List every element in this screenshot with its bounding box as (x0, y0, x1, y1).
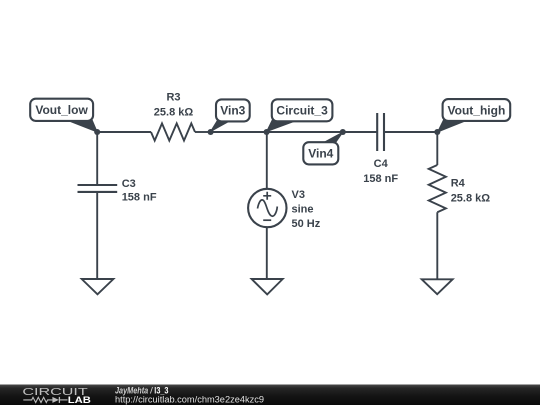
svg-text:LAB: LAB (68, 395, 92, 405)
credit url (115, 395, 264, 405)
value 158 nF (C4) (363, 173, 398, 185)
svg-text:Circuit_3: Circuit_3 (276, 104, 328, 118)
ground (left) (82, 279, 114, 294)
net flag Vout_high (438, 99, 511, 132)
label R3 (166, 92, 180, 104)
ground (right) (422, 279, 453, 294)
svg-text:V3: V3 (292, 189, 305, 201)
net flag Vin3 (211, 99, 250, 131)
value 158 nF (C3) (122, 192, 157, 204)
capacitor C4 (377, 113, 384, 151)
logo wire with resistor and diode (23, 397, 67, 403)
label R4 (451, 177, 466, 189)
logo LAB text (68, 395, 92, 405)
svg-text:R4: R4 (451, 177, 466, 189)
ground (middle) (252, 279, 283, 294)
wire: node D to C4 left plate (343, 131, 377, 133)
value 25.8 kΩ (R4) (451, 193, 491, 205)
footer bar (0, 385, 540, 405)
net flag Vin4 (303, 132, 343, 164)
node D (Vin4 junction) (340, 129, 346, 135)
svg-text:25.8 kΩ: 25.8 kΩ (451, 193, 491, 205)
node E (Vout_high junction) (434, 129, 440, 135)
voltage source V3 (248, 189, 286, 227)
svg-text:Vout_high: Vout_high (448, 103, 506, 117)
value sine (V3) (292, 204, 314, 216)
wire: node C down to V3 (266, 132, 268, 189)
logo CIRCUIT text (22, 386, 88, 398)
svg-text:Vin4: Vin4 (308, 147, 333, 161)
capacitor C3 (78, 185, 118, 192)
label V3 (292, 189, 305, 201)
svg-text:C4: C4 (374, 158, 389, 170)
wire: R3 right to node B (195, 131, 211, 133)
wire: C3 to left ground (96, 192, 98, 279)
wire: V3 to middle ground (266, 227, 268, 279)
svg-text:C3: C3 (122, 178, 136, 190)
net flag Vout_low (30, 99, 97, 132)
node C (Circuit_3 junction) (264, 129, 270, 135)
resistor R3 (151, 123, 195, 140)
wire: node A down to C3 (96, 132, 98, 185)
node A (Vout_low junction) (94, 129, 100, 135)
svg-text:Vin3: Vin3 (220, 104, 245, 118)
svg-text:158 nF: 158 nF (363, 173, 398, 185)
wire: node B to node C (211, 131, 267, 133)
net flag Circuit_3 (267, 99, 333, 131)
node B (Vin3 junction) (208, 129, 214, 135)
wire: node A to R3 left (97, 131, 151, 133)
credit JayMehta / l3_3 (115, 385, 169, 395)
value 25.8 kΩ (R3) (154, 106, 194, 118)
svg-text:http://circuitlab.com/chm3e2ze: http://circuitlab.com/chm3e2ze4kzc9 (115, 395, 264, 405)
label C4 (374, 158, 389, 170)
resistor R4 (429, 165, 446, 212)
wire: node E down to R4 (436, 132, 438, 165)
svg-text:158 nF: 158 nF (122, 192, 157, 204)
wire: R4 to right ground (436, 212, 438, 279)
svg-text:sine: sine (292, 204, 314, 216)
svg-text:25.8 kΩ: 25.8 kΩ (154, 106, 194, 118)
svg-text:R3: R3 (166, 92, 180, 104)
wire: node C to node D (267, 131, 343, 133)
svg-text:50 Hz: 50 Hz (292, 218, 321, 230)
label C3 (122, 178, 136, 190)
wire: C4 right plate to node E (384, 131, 437, 133)
svg-text:Vout_low: Vout_low (35, 103, 88, 117)
value 50 Hz (V3) (292, 218, 321, 230)
